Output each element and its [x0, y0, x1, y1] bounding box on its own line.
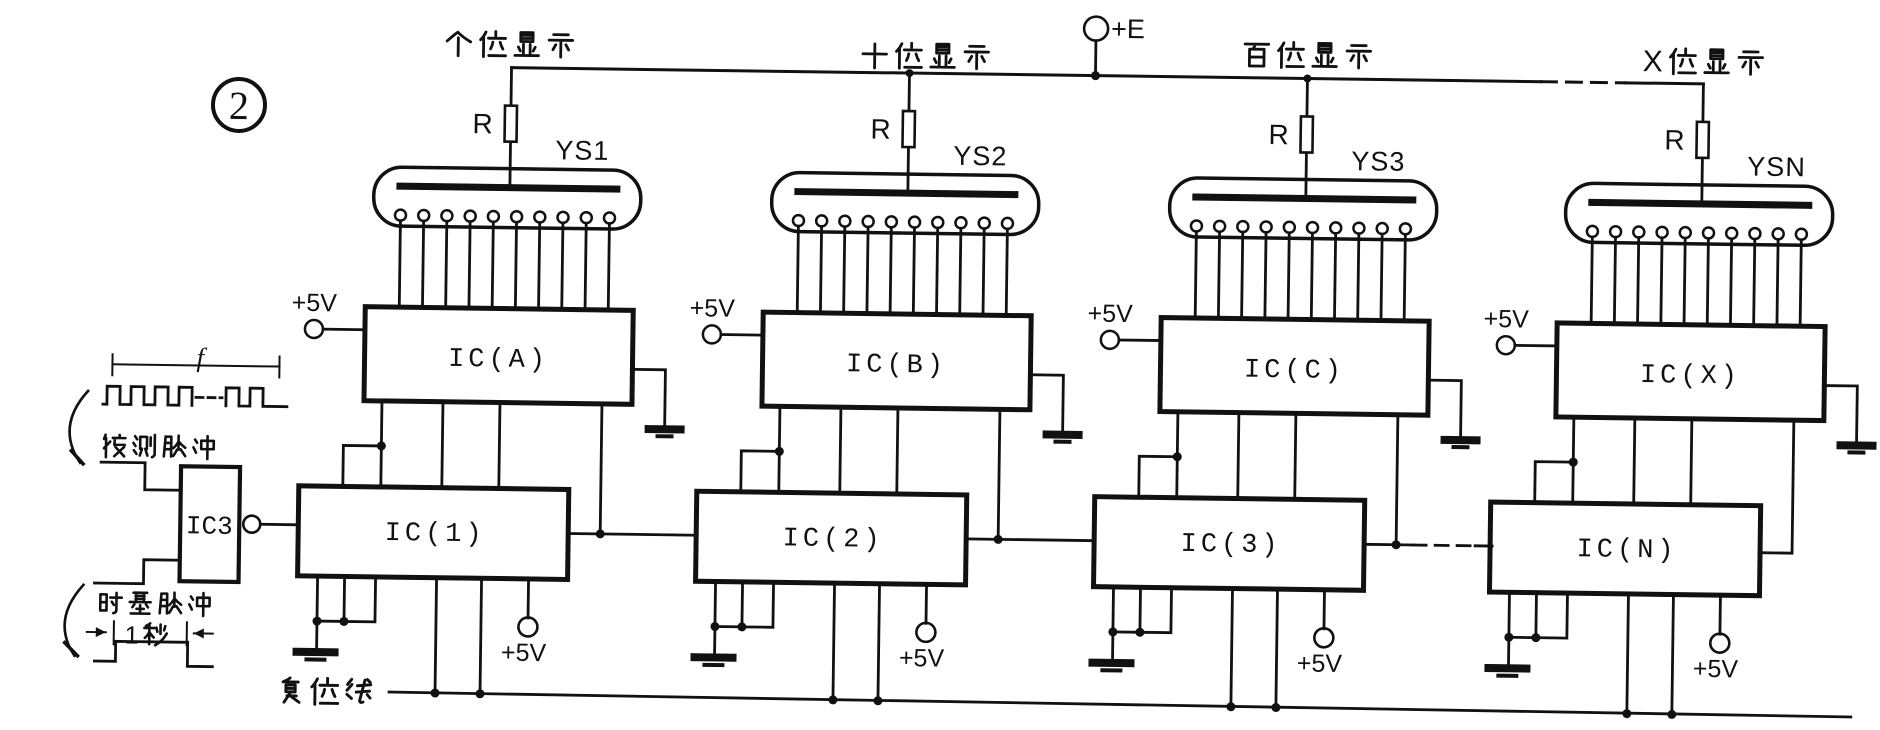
- decoder/driver IC(A): [364, 307, 633, 405]
- resistor R (stage 1): [472, 67, 518, 189]
- ground for IC(C): [1427, 380, 1477, 447]
- display tube YS1: [373, 133, 641, 230]
- junction: reset pin 2: [873, 696, 882, 705]
- waveform: input pulse train f: [103, 386, 287, 407]
- IC3 output inverter bubble: [243, 516, 260, 533]
- wire: IC(N) strap pins: [1536, 593, 1568, 638]
- junction: reset pin 2: [1271, 703, 1280, 712]
- junction: reset pin 1: [430, 688, 439, 697]
- label: measured pulse 被测脉冲: [104, 434, 214, 459]
- svg-text:+5V: +5V: [1483, 305, 1529, 334]
- wire: BCD line 1 IC(A) to IC(1): [381, 401, 382, 487]
- wire: reset pin 1 of IC(2): [833, 583, 835, 700]
- wire: branch jog into IC(N): [1535, 462, 1574, 504]
- junction dots on ground strap: [710, 622, 719, 631]
- wire: measured-pulse input edge into IC3: [101, 462, 181, 490]
- junction: reset pin 1: [1622, 709, 1631, 718]
- svg-text:YS1: YS1: [555, 135, 609, 166]
- display tube YS3: [1169, 144, 1437, 241]
- resistor R (stage 4): [1664, 83, 1710, 205]
- wire: IC(3) pin to ground: [1111, 587, 1115, 660]
- svg-text:IC(B): IC(B): [846, 350, 947, 381]
- wire: strap to ground leg: [1113, 631, 1140, 634]
- svg-text:+5V: +5V: [689, 294, 735, 323]
- +5V terminal at bottom of IC(N): [1693, 595, 1740, 684]
- wire: IC(2) strap pins: [742, 582, 774, 627]
- wire: reset pin 2 of IC(1): [480, 578, 482, 694]
- svg-text:+5V: +5V: [501, 639, 547, 668]
- display tube YS1 pins (10) with leads: [394, 210, 615, 310]
- svg-text:R: R: [1664, 124, 1685, 155]
- svg-text:+5V: +5V: [899, 644, 945, 673]
- wire: BCD line 4 down to carry line: [1396, 415, 1398, 545]
- wire: IC(1) pin to ground: [315, 576, 319, 649]
- +5V terminal at bottom of IC(2): [899, 584, 946, 673]
- wire: BCD line 4 down to carry line: [998, 409, 1000, 539]
- wire: BCD line 3: [897, 408, 898, 494]
- brace arc (time base): [64, 585, 83, 656]
- svg-text:YSN: YSN: [1747, 152, 1806, 183]
- wire: BCD line 2: [442, 402, 443, 488]
- junction: bus to R (stage2): [905, 69, 913, 77]
- wire: carry IC(1) to next stage: [568, 533, 696, 535]
- wire: BCD line 3: [499, 403, 500, 489]
- junction dots on ground strap: [1108, 627, 1117, 636]
- +5V terminal at bottom of IC(3): [1297, 589, 1344, 678]
- wire: carry IC(3) to next stage (dashed): [1364, 544, 1492, 546]
- brace arc (measured pulse): [69, 391, 88, 464]
- svg-text:R: R: [1268, 119, 1289, 150]
- junction dots on ground strap: [312, 617, 321, 626]
- wire: IC(N) pin to ground: [1507, 592, 1511, 665]
- display tube YS2 pins (10) with leads: [792, 215, 1013, 315]
- dimension f bracket: [112, 341, 279, 377]
- junction: reset pin 2: [1667, 710, 1676, 719]
- ground for IC(1): [296, 652, 334, 660]
- svg-text:R: R: [870, 114, 891, 145]
- resistor R (stage 3): [1268, 78, 1314, 200]
- wire: IC3 output to IC(1): [260, 523, 298, 526]
- wire: BCD line 1 IC(B) to IC(2): [779, 406, 780, 492]
- ground for IC(2): [694, 657, 732, 665]
- wire: carry IC(2) to next stage: [966, 539, 1094, 541]
- svg-text:+5V: +5V: [1693, 655, 1739, 684]
- label: time base pulse 时基脉冲: [100, 592, 210, 616]
- junction dot on carry line: [596, 529, 605, 538]
- wire: branch jog into IC(1): [343, 445, 382, 487]
- display tube YS3 pins (10) with leads: [1190, 220, 1411, 320]
- junction: reset pin 1: [1226, 702, 1235, 711]
- wire: BCD line 4 looped into IC(N) right side: [1760, 420, 1794, 553]
- junction: reset pin 1: [828, 695, 837, 704]
- display tube YS2: [771, 138, 1039, 235]
- waveform: 1 second gate pulse: [94, 641, 212, 667]
- wire: reset pin 1 of IC(N): [1627, 594, 1629, 714]
- junction: +E to bus: [1091, 71, 1100, 80]
- +5V terminal for IC(C): [1087, 300, 1161, 350]
- wire: reset pin 2 of IC(N): [1672, 595, 1674, 715]
- wire: BCD line 1 IC(X) to IC(N): [1573, 417, 1574, 503]
- svg-text:IC(X): IC(X): [1640, 361, 1741, 392]
- wire: strap to ground leg: [715, 625, 742, 628]
- svg-text:+E: +E: [1111, 14, 1145, 44]
- wire: timebase input edge into IC3: [94, 559, 179, 584]
- wire: reset pin 2 of IC(2): [878, 584, 880, 701]
- wire: strap to ground leg: [317, 620, 344, 623]
- wire: reset pin 1 of IC(3): [1231, 589, 1233, 708]
- svg-text:IC3: IC3: [186, 511, 233, 542]
- svg-text:YS3: YS3: [1351, 146, 1405, 177]
- junction dots on ground strap: [1504, 633, 1513, 642]
- svg-text:IC(1): IC(1): [384, 519, 485, 550]
- junction: bus to R (stage3): [1303, 74, 1311, 82]
- ground for IC(A): [632, 369, 682, 436]
- label: units display 个位显示: [447, 31, 573, 58]
- figure number (2): [213, 79, 266, 132]
- svg-text:IC(A): IC(A): [448, 345, 549, 376]
- dimension: 1 second bracket: [87, 621, 213, 651]
- wire: BCD line 2: [840, 407, 841, 493]
- wire: IC(3) strap pins: [1140, 587, 1172, 632]
- +5V terminal for IC(B): [689, 294, 763, 344]
- label: tens display 十位显示: [863, 43, 989, 70]
- wire: BCD line 2: [1634, 418, 1635, 504]
- junction dot on BCD line 1: [1569, 458, 1578, 467]
- svg-text:+5V: +5V: [1297, 649, 1343, 678]
- ground for IC(X): [1823, 386, 1873, 453]
- counter IC(3): [1094, 497, 1365, 591]
- svg-text:IC(2): IC(2): [782, 524, 883, 555]
- wire: strap to ground leg: [1509, 636, 1536, 639]
- junction dot on BCD line 1: [775, 447, 784, 456]
- junction dot on carry line: [1392, 540, 1401, 549]
- junction dot on carry line: [994, 535, 1003, 544]
- svg-text:R: R: [472, 108, 493, 139]
- ground for IC(B): [1029, 375, 1079, 442]
- counter IC(2): [696, 491, 967, 585]
- wire: BCD line 3: [1691, 419, 1692, 505]
- wire: BCD line 1 IC(C) to IC(3): [1177, 412, 1178, 498]
- label: X-digit display X位显示: [1642, 45, 1762, 80]
- +5V terminal for IC(A): [291, 289, 365, 339]
- display tube YSN pins (10) with leads: [1586, 226, 1807, 326]
- wire: +E supply bus: [512, 68, 1704, 84]
- +5V terminal for IC(X): [1483, 305, 1557, 355]
- wire: reset line: [389, 692, 1851, 717]
- label: reset line 复位线: [283, 678, 371, 705]
- wire: IC(1) strap pins: [344, 576, 376, 621]
- +5V terminal at bottom of IC(1): [501, 579, 548, 668]
- gate IC3: [180, 466, 241, 582]
- junction: reset pin 2: [475, 689, 484, 698]
- junction dot on BCD line 1: [1173, 452, 1182, 461]
- ground for IC(3): [1092, 663, 1130, 671]
- wire: BCD line 3: [1295, 413, 1296, 499]
- counter IC(N): [1489, 502, 1760, 596]
- svg-text:IC(3): IC(3): [1180, 530, 1281, 561]
- svg-text:X: X: [1642, 45, 1662, 78]
- wire: branch jog into IC(2): [741, 451, 780, 493]
- svg-text:IC(N): IC(N): [1576, 535, 1677, 566]
- wire: reset pin 1 of IC(1): [435, 578, 437, 694]
- svg-text:IC(C): IC(C): [1244, 356, 1345, 387]
- decoder/driver IC(B): [762, 312, 1031, 410]
- display tube YSN: [1565, 149, 1833, 246]
- decoder/driver IC(X): [1556, 323, 1825, 421]
- resistor R (stage 2): [870, 73, 916, 195]
- wire: branch jog into IC(3): [1139, 456, 1178, 498]
- label: hundreds display 百位显示: [1245, 42, 1371, 69]
- svg-text:+5V: +5V: [292, 289, 338, 318]
- label: seconds 秒: [144, 623, 167, 645]
- wire: BCD line 4 down to carry line: [600, 404, 602, 534]
- terminal +E: [1083, 13, 1145, 76]
- junction dot on BCD line 1: [377, 441, 386, 450]
- decoder/driver IC(C): [1160, 318, 1429, 416]
- svg-text:+5V: +5V: [1087, 300, 1133, 329]
- svg-text:1: 1: [125, 621, 139, 649]
- ground for IC(N): [1488, 668, 1526, 676]
- svg-text:2: 2: [229, 83, 250, 128]
- wire: reset pin 2 of IC(3): [1276, 589, 1278, 708]
- svg-text:YS2: YS2: [953, 141, 1007, 172]
- wire: IC(2) pin to ground: [713, 581, 717, 654]
- counter IC(1): [298, 486, 569, 580]
- wire: BCD line 2: [1238, 413, 1239, 499]
